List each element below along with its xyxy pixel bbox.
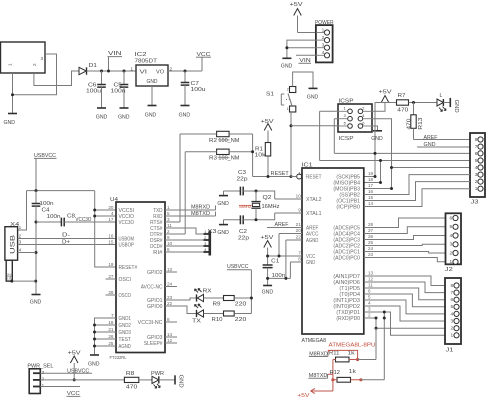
wire jack pin2 to diode [34, 71, 79, 86]
svg-text:XTAL1: XTAL1 [306, 211, 322, 217]
svg-text:TEST: TEST [119, 337, 131, 343]
wire ICSP pin5 to reset [291, 125, 338, 127]
svg-text:RESET: RESET [306, 175, 322, 181]
svg-text:GPIO0: GPIO0 [147, 304, 163, 310]
svg-text:2: 2 [167, 229, 170, 234]
wire S1 to reset [290, 112, 292, 177]
IC IC1 ATMEGA8 [296, 162, 374, 344]
wire PB0 to J3 pin1 [364, 189, 470, 207]
svg-text:100n: 100n [40, 201, 54, 207]
connector J2 [445, 213, 461, 272]
wire red R12 row [333, 379, 361, 381]
svg-text:12: 12 [167, 338, 173, 343]
svg-text:C2: C2 [239, 229, 247, 235]
connector PWR_SEL [27, 363, 53, 393]
svg-text:220: 220 [235, 317, 247, 323]
wire PC0 to J2 pin1 [364, 258, 446, 262]
wire MISO net [320, 111, 470, 182]
svg-text:VCC3O: VCC3O [75, 217, 91, 223]
wire VO to VCC [168, 57, 202, 71]
svg-text:6: 6 [368, 289, 371, 294]
svg-text:8: 8 [298, 257, 301, 262]
svg-text:P$1: P$1 [9, 273, 13, 279]
ground [88, 355, 100, 368]
node VIN [107, 51, 122, 73]
svg-text:100_NM: 100_NM [218, 156, 239, 162]
connector POWER [315, 20, 334, 63]
wire red R11 row [333, 359, 358, 361]
svg-text:X3: X3 [208, 229, 217, 235]
svg-text:GND: GND [178, 375, 184, 388]
svg-text:22p: 22p [237, 177, 248, 183]
svg-text:9: 9 [298, 208, 301, 213]
wire XTAL1 net [256, 213, 302, 220]
node GND [417, 142, 470, 148]
svg-text:C4: C4 [42, 208, 50, 214]
wire to X4 pin1 [18, 191, 27, 230]
LED TX [192, 304, 204, 325]
wire R12 to PD1 [361, 379, 384, 381]
wire PB1 to J3 pin2 [364, 182, 470, 201]
svg-text:13: 13 [368, 271, 374, 276]
svg-text:ICSP: ICSP [339, 136, 355, 142]
node VCC [196, 52, 211, 58]
svg-text:GND: GND [145, 112, 157, 118]
wire S1 to gnd [293, 72, 313, 88]
svg-text:IC1: IC1 [302, 162, 313, 168]
svg-text:1: 1 [131, 66, 134, 71]
svg-text:21: 21 [108, 327, 114, 332]
ground (rotated) [450, 98, 459, 113]
ground [179, 106, 191, 119]
svg-text:5: 5 [475, 158, 478, 164]
LED PWR [151, 371, 175, 388]
node D- / D+ labels [62, 232, 70, 245]
wire NC stubs [165, 272, 177, 343]
+5V supply [290, 2, 304, 32]
svg-text:D-: D- [62, 232, 70, 238]
svg-text:ATMEGA8L-8PU: ATMEGA8L-8PU [329, 343, 376, 349]
svg-text:Q2: Q2 [263, 195, 272, 201]
wire FT232 ground pins [95, 318, 117, 355]
ground [217, 191, 229, 207]
svg-text:470: 470 [126, 384, 138, 390]
svg-text:100u: 100u [191, 87, 206, 93]
wire R11 to PD0 [358, 328, 376, 359]
node AREF [267, 222, 302, 228]
svg-text:RX: RX [203, 288, 213, 294]
svg-text:(ADC0)PC0: (ADC0)PC0 [333, 256, 360, 262]
node USBVCC [227, 264, 251, 313]
svg-text:24: 24 [167, 281, 173, 286]
svg-text:USB: USB [10, 235, 17, 254]
resistor R2 100_NM [209, 131, 239, 144]
svg-text:23: 23 [368, 252, 374, 257]
svg-text:220: 220 [235, 301, 247, 307]
svg-text:1: 1 [475, 186, 478, 192]
svg-text:GND: GND [306, 260, 316, 266]
svg-text:+5V: +5V [379, 90, 393, 96]
svg-text:1: 1 [450, 259, 453, 265]
svg-text:7: 7 [298, 251, 301, 256]
+5V supply [68, 350, 82, 380]
svg-text:M8TXD: M8TXD [191, 211, 210, 217]
svg-text:2: 2 [287, 88, 289, 92]
resistor R8 470 [124, 371, 152, 390]
svg-text:C3: C3 [238, 170, 246, 176]
svg-text:5: 5 [368, 295, 371, 300]
svg-text:GND: GND [262, 290, 274, 296]
capacitor C1 100n [263, 258, 286, 285]
LED L [437, 93, 446, 112]
connector X4 USB [5, 222, 22, 281]
svg-text:ICSP: ICSP [339, 99, 355, 105]
svg-text:RESET#: RESET# [119, 265, 138, 271]
svg-text:7: 7 [111, 313, 114, 318]
svg-text:AVCC: AVCC [306, 232, 319, 238]
svg-text:GND: GND [179, 112, 191, 118]
svg-text:23: 23 [167, 295, 173, 300]
connector J1 [445, 278, 461, 353]
svg-text:1k: 1k [349, 369, 357, 375]
svg-text:9: 9 [167, 235, 170, 240]
svg-text:SLEEP#: SLEEP# [144, 341, 163, 347]
svg-text:GND: GND [30, 299, 42, 305]
wire PC2 to J2 pin3 [364, 244, 446, 245]
svg-text:USBVCC: USBVCC [67, 368, 89, 374]
capacitor C4 100n [32, 191, 54, 295]
svg-text:+5V: +5V [68, 350, 82, 356]
capacitor C6 100u [86, 70, 106, 109]
junction [285, 46, 288, 49]
svg-text:R10: R10 [212, 317, 223, 323]
node USBVCC [40, 368, 92, 374]
connector ICSP [338, 99, 372, 142]
wire MOSI net [364, 119, 470, 189]
svg-text:1: 1 [167, 205, 170, 210]
svg-text:6: 6 [450, 215, 453, 221]
svg-text:100n: 100n [47, 214, 61, 220]
svg-text:M8RXD: M8RXD [191, 205, 210, 211]
connector X3 [204, 229, 217, 256]
svg-text:+5V: +5V [260, 235, 274, 241]
svg-text:GND: GND [4, 120, 16, 126]
+5V supply [260, 235, 274, 247]
svg-text:R11: R11 [329, 351, 340, 357]
node M8RXD [165, 205, 216, 211]
wire jack pin3 to gnd [13, 54, 57, 95]
resistor R10 220 [204, 311, 252, 323]
node M8TXD [308, 373, 327, 379]
svg-text:R12: R12 [330, 370, 341, 376]
svg-text:4: 4 [451, 311, 454, 317]
svg-text:26: 26 [368, 234, 374, 239]
svg-text:J1: J1 [446, 347, 454, 353]
wire red +5V rail [311, 360, 333, 392]
svg-text:19: 19 [368, 171, 374, 176]
svg-text:5: 5 [451, 304, 454, 310]
svg-text:D+: D+ [62, 239, 70, 245]
svg-text:1: 1 [8, 63, 13, 66]
wire R3 net [185, 151, 252, 153]
svg-text:100u: 100u [86, 89, 101, 95]
svg-text:8: 8 [475, 137, 478, 143]
svg-text:U4: U4 [110, 197, 118, 203]
IC U4 FT232RL [108, 197, 172, 360]
wire DTR to R3 [165, 152, 185, 234]
svg-text:4: 4 [475, 165, 478, 171]
svg-text:2: 2 [450, 250, 453, 256]
svg-text:C8: C8 [67, 214, 75, 220]
svg-text:13: 13 [167, 267, 173, 272]
svg-text:3: 3 [167, 217, 170, 222]
svg-text:R13: R13 [418, 117, 424, 129]
svg-text:S1: S1 [266, 91, 274, 97]
svg-text:10k: 10k [255, 152, 267, 158]
wire PD7 to J1 pin8 [364, 276, 445, 286]
wire X4 shield [12, 280, 36, 282]
svg-text:PWR: PWR [151, 371, 164, 377]
svg-text:GND: GND [217, 230, 229, 236]
svg-text:TX: TX [192, 319, 202, 325]
wire RESET net [253, 176, 297, 178]
svg-text:+5V: +5V [290, 2, 304, 8]
svg-text:4: 4 [450, 233, 453, 239]
svg-text:RI#: RI# [153, 250, 163, 256]
wire PC3 to J2 pin4 [364, 236, 446, 240]
svg-text:17: 17 [368, 183, 374, 188]
svg-text:11: 11 [368, 283, 373, 288]
resistor R1 10k [255, 131, 271, 177]
svg-text:C1: C1 [271, 258, 279, 264]
ground [262, 286, 274, 296]
svg-text:21: 21 [296, 222, 302, 227]
svg-text:GND: GND [281, 63, 293, 69]
svg-text:C7: C7 [191, 81, 200, 87]
+5V supply [261, 119, 275, 131]
wire PD1 to J1 pin1 [364, 312, 445, 335]
wire red M8RXD link [328, 350, 357, 359]
svg-text:28: 28 [108, 290, 114, 295]
svg-text:(ICP)PB0: (ICP)PB0 [336, 205, 360, 211]
wire AGND/GND rail [268, 240, 302, 278]
svg-text:POWER: POWER [315, 20, 334, 26]
svg-text:J2: J2 [445, 267, 453, 273]
resistor R3 100_NM [209, 149, 239, 162]
wire SCK net [334, 103, 470, 177]
resistor R7 470 [375, 93, 437, 113]
svg-text:8MHz: 8MHz [239, 204, 252, 210]
wire D- [18, 238, 116, 240]
node VIN [299, 58, 312, 64]
svg-text:22: 22 [167, 301, 173, 306]
svg-text:14: 14 [167, 332, 173, 337]
svg-text:3: 3 [450, 242, 453, 248]
junction [11, 93, 14, 96]
svg-text:4: 4 [368, 301, 371, 306]
svg-text:26: 26 [108, 334, 114, 339]
ground [371, 131, 383, 142]
svg-text:R3: R3 [209, 156, 217, 162]
ground [145, 106, 157, 119]
svg-text:3: 3 [451, 318, 454, 324]
svg-text:18: 18 [368, 177, 374, 182]
wire X4 pin4 [18, 252, 36, 254]
svg-text:GND: GND [371, 136, 383, 142]
+5V supply [379, 90, 393, 103]
svg-text:VO: VO [156, 70, 164, 76]
ground [118, 108, 130, 121]
svg-text:100n: 100n [111, 89, 126, 95]
svg-text:25: 25 [368, 240, 374, 245]
ground [30, 295, 42, 306]
switch S1 [266, 87, 296, 113]
diode D1 [79, 63, 97, 75]
wire PD0 branch [364, 318, 445, 360]
wire PC1 to J2 pin2 [364, 252, 446, 254]
wire PC5 to J2 pin6 [364, 218, 446, 228]
svg-text:AGND: AGND [119, 344, 132, 350]
wire GPIO0 to TX led [165, 306, 197, 314]
svg-text:R7: R7 [398, 93, 406, 99]
svg-text:VCC3O: VCC3O [119, 220, 135, 226]
svg-text:17: 17 [108, 217, 114, 222]
wire VCC rail [268, 248, 302, 266]
svg-text:5: 5 [450, 224, 453, 230]
wire DCD to X3 pin3 [165, 245, 204, 247]
wire POWER pin2/pin3 to gnd [287, 40, 316, 58]
node USBVCC [34, 153, 57, 191]
svg-text:22: 22 [296, 235, 302, 240]
LED RX [195, 288, 213, 301]
wire D+ [18, 244, 116, 246]
wire PD1 branch to R12 [383, 312, 385, 380]
svg-text:16: 16 [108, 233, 114, 238]
svg-text:RESET: RESET [271, 171, 290, 177]
svg-text:16MHz: 16MHz [262, 204, 280, 210]
capacitor C2 22p [224, 215, 257, 241]
svg-text:10: 10 [167, 241, 173, 246]
wire +5V to POWER pin1 [298, 32, 316, 34]
svg-text:OSCO: OSCO [119, 293, 131, 299]
wire PD3 to J1 pin4 [364, 300, 445, 314]
ground (rotated) [175, 375, 184, 388]
svg-text:8: 8 [451, 283, 454, 289]
svg-text:24: 24 [368, 246, 374, 251]
wire PWR_SEL pin2 row [40, 379, 124, 381]
resistor R11 1k [329, 351, 355, 362]
ground [4, 114, 18, 127]
wire PD5 to J1 pin6 [364, 288, 445, 300]
svg-text:27: 27 [368, 228, 374, 233]
wire LED to gnd [443, 102, 450, 104]
ground [281, 58, 293, 69]
wire OSCI/OSCO stubs [106, 279, 117, 295]
wire red M8TXD link [328, 373, 333, 375]
svg-text:GND: GND [88, 362, 100, 368]
svg-text:3: 3 [41, 56, 44, 61]
svg-text:GPIO2: GPIO2 [147, 270, 163, 276]
svg-text:12: 12 [368, 277, 374, 282]
svg-text:6: 6 [451, 297, 454, 303]
wire GPIO1 to RX led [165, 298, 197, 300]
wire ICSP pin2 to +5V [372, 102, 385, 111]
wire PD4 to J1 pin5 [364, 294, 445, 307]
svg-text:GND: GND [307, 94, 319, 100]
wire IC2 gnd [151, 86, 153, 106]
wire VIN rail [87, 70, 137, 72]
wire XTAL2 net [256, 191, 302, 199]
wire ICSP pin6 to gnd [372, 126, 378, 131]
svg-text:6: 6 [167, 247, 170, 252]
wire jack pin1 down [12, 73, 14, 114]
svg-text:VI: VI [140, 70, 148, 76]
wire RTS to R2 [165, 134, 180, 222]
svg-text:AGND: AGND [306, 238, 319, 244]
node M8TXD [165, 211, 216, 217]
svg-text:7: 7 [451, 290, 454, 296]
svg-text:GND: GND [453, 100, 459, 113]
wire PC4 to J2 pin5 [364, 227, 446, 234]
svg-text:20: 20 [108, 205, 114, 210]
wire CTS to X3 pin1 [165, 228, 204, 234]
svg-text:XTAL2: XTAL2 [306, 197, 322, 203]
svg-text:R8: R8 [126, 371, 135, 377]
svg-text:2: 2 [32, 63, 37, 66]
wire RI to X3 pin4 [165, 251, 204, 253]
svg-text:14: 14 [368, 201, 374, 206]
wire PD2 to J1 pin3 [364, 306, 445, 321]
svg-text:27: 27 [108, 274, 114, 279]
svg-text:28: 28 [368, 222, 374, 227]
svg-text:IC2: IC2 [135, 52, 147, 58]
svg-text:470: 470 [397, 108, 408, 114]
svg-text:16: 16 [368, 189, 374, 194]
svg-text:1: 1 [287, 107, 289, 111]
svg-text:GND3: GND3 [119, 330, 132, 336]
svg-text:USBOP: USBOP [119, 243, 135, 249]
connector J3 [470, 133, 485, 206]
wire usbvcc to FT232 [95, 191, 116, 267]
svg-text:470: 470 [407, 118, 413, 129]
svg-text:R9: R9 [213, 301, 221, 307]
capacitor C7 100u [181, 70, 206, 106]
wire PB2 to J3 pin3 [364, 175, 470, 195]
svg-text:1k: 1k [348, 351, 356, 357]
svg-text:GND: GND [118, 115, 130, 121]
capacitor C3 22p [224, 170, 257, 195]
power jack X1 [1, 42, 46, 73]
svg-text:8: 8 [167, 317, 170, 322]
ground [217, 220, 229, 236]
svg-text:20: 20 [296, 228, 302, 233]
svg-text:15: 15 [368, 195, 374, 200]
svg-text:4: 4 [111, 211, 114, 216]
wire usbvcc rail [27, 190, 95, 192]
crystal Q2 16MHz [239, 191, 280, 220]
svg-text:2: 2 [368, 313, 371, 318]
svg-text:22p: 22p [238, 235, 249, 241]
svg-text:GND: GND [217, 201, 229, 207]
ground [307, 88, 319, 100]
capacitor C5 100n [111, 70, 129, 109]
svg-text:2: 2 [475, 179, 478, 185]
node M8RXD [309, 351, 328, 357]
svg-text:J3: J3 [471, 200, 479, 206]
resistor R12 1k [330, 369, 357, 382]
svg-text:GND: GND [96, 115, 108, 121]
svg-text:18: 18 [108, 320, 114, 325]
